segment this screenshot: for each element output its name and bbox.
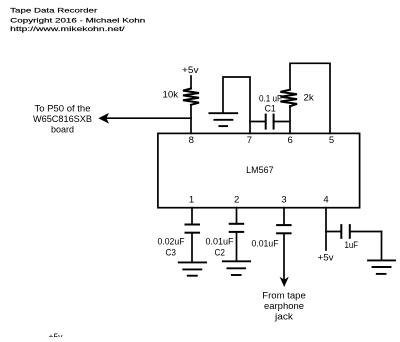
svg-text:3: 3 xyxy=(281,195,286,206)
svg-text:10k: 10k xyxy=(163,90,179,100)
svg-text:Copyright 2016 - Michael Kohn: Copyright 2016 - Michael Kohn xyxy=(10,17,145,24)
svg-text:5: 5 xyxy=(329,135,334,146)
svg-text:C3: C3 xyxy=(166,247,177,257)
svg-text:0.1 uF: 0.1 uF xyxy=(259,93,282,103)
svg-text:2: 2 xyxy=(234,195,239,206)
svg-text:From tape: From tape xyxy=(262,290,306,300)
svg-text:Tape Data Recorder: Tape Data Recorder xyxy=(10,8,98,15)
svg-text:To P50 of the: To P50 of the xyxy=(35,104,91,114)
svg-text:+5v: +5v xyxy=(318,253,335,263)
svg-text:http://www.mikekohn.net/: http://www.mikekohn.net/ xyxy=(10,26,125,33)
svg-text:2k: 2k xyxy=(304,93,315,103)
svg-text:LM567: LM567 xyxy=(246,165,274,176)
svg-text:6: 6 xyxy=(288,135,293,146)
svg-text:7: 7 xyxy=(247,135,252,146)
svg-text:0.02uF: 0.02uF xyxy=(158,236,185,246)
svg-text:0.01uF: 0.01uF xyxy=(206,236,234,246)
svg-text:earphone: earphone xyxy=(264,301,304,311)
svg-text:+5v: +5v xyxy=(49,332,63,337)
svg-text:jack: jack xyxy=(274,312,294,322)
svg-text:+5v: +5v xyxy=(182,65,199,75)
svg-text:1: 1 xyxy=(189,195,194,206)
svg-text:C2: C2 xyxy=(215,247,226,257)
svg-text:W65C816SXB: W65C816SXB xyxy=(33,114,92,124)
svg-text:1uF: 1uF xyxy=(345,240,359,250)
svg-text:4: 4 xyxy=(323,195,328,206)
svg-text:0.01uF: 0.01uF xyxy=(252,238,279,248)
svg-text:board: board xyxy=(51,125,74,135)
svg-text:8: 8 xyxy=(189,135,194,146)
svg-text:C1: C1 xyxy=(265,104,276,114)
